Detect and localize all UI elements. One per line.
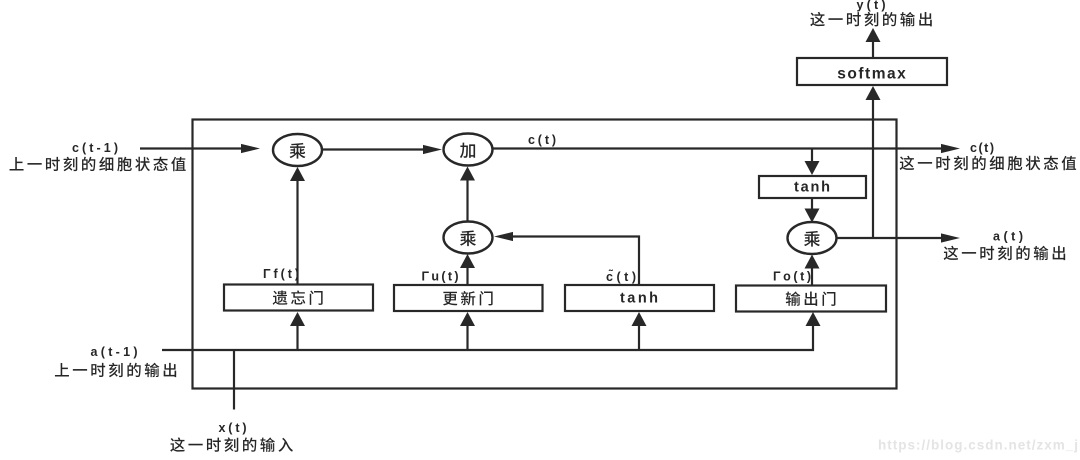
- svg-text:softmax: softmax: [837, 66, 907, 83]
- svg-text:c(t): c(t): [970, 141, 994, 155]
- svg-text:https://blog.csdn.net/zxm_jin: https://blog.csdn.net/zxm_jin: [878, 438, 1080, 453]
- svg-text:tanh: tanh: [794, 179, 831, 195]
